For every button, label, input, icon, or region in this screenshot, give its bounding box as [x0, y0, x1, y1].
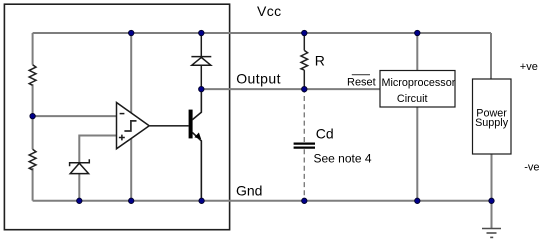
- svg-text:Output: Output: [236, 71, 281, 87]
- svg-text:Circuit: Circuit: [397, 93, 428, 105]
- svg-text:+ve: +ve: [520, 61, 538, 73]
- svg-text:Vcc: Vcc: [257, 3, 282, 19]
- svg-text:-ve: -ve: [524, 161, 539, 173]
- svg-text:Reset: Reset: [347, 76, 376, 88]
- svg-text:Microprocessor: Microprocessor: [382, 77, 456, 89]
- svg-text:R: R: [315, 52, 325, 68]
- svg-text:Gnd: Gnd: [236, 182, 262, 198]
- svg-text:See note 4: See note 4: [314, 152, 372, 166]
- svg-text:Supply: Supply: [475, 117, 509, 129]
- svg-text:Cd: Cd: [316, 126, 334, 142]
